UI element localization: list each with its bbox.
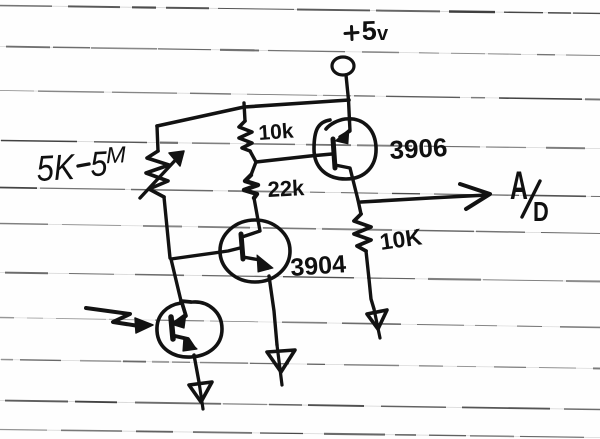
Q2 base bar <box>241 234 243 259</box>
wire: Q2 emitter to ground <box>269 276 277 345</box>
svg-text:3904: 3904 <box>289 250 347 282</box>
Q2 emitter with arrow <box>243 257 268 268</box>
wire: node to Q2 base <box>171 248 240 259</box>
supply terminal circle <box>332 57 354 75</box>
Q3 base bar <box>333 139 335 168</box>
resistor R4 10K zigzag <box>354 214 371 251</box>
svg-text:A: A <box>510 164 528 208</box>
svg-text:10k: 10k <box>258 120 295 145</box>
svg-text:5: 5 <box>361 15 377 46</box>
ground under Q1 (arrow triangle) <box>189 382 212 402</box>
label +5V <box>345 27 358 40</box>
resistor R1 5K-5M (variable) zigzag <box>146 151 169 197</box>
arrow across R1 (variable symbol) <box>140 153 182 198</box>
wire: node X to Q3 base <box>256 154 332 162</box>
wire: Q1 emitter to ground <box>194 355 199 382</box>
Q3 collector <box>335 165 358 200</box>
resistor R3 22k zigzag <box>244 175 258 198</box>
label A/D <box>510 164 528 208</box>
wire: left branch top stub <box>157 126 158 151</box>
wire: node X down to 22k <box>251 162 256 175</box>
wire: R2 bottom to node X <box>250 151 256 162</box>
svg-text:v: v <box>377 23 389 45</box>
Q1 emitter with arrow <box>175 336 194 348</box>
transistor Q3 3906 circle <box>314 119 376 179</box>
wire: Q3 collector to R4 <box>358 200 361 214</box>
wire: node down to Q1 collector <box>171 259 181 301</box>
ground under Q2 (arrow triangle) <box>267 350 295 372</box>
Q1 base bar <box>171 317 173 339</box>
resistor R2 10k zigzag <box>239 121 252 151</box>
transistor Q1 (photo) circle <box>157 302 222 357</box>
wire: 22k bottom to Q2 collector entry <box>242 198 260 237</box>
wire: top rail from left branch to +5V line <box>157 100 349 126</box>
svg-text:22k: 22k <box>267 175 306 202</box>
wire: R1 bottom to node junction <box>164 197 170 258</box>
svg-text:D: D <box>533 196 549 227</box>
Q3 emitter with arrow (PNP, into bar) <box>340 121 350 137</box>
svg-text:5K: 5K <box>35 146 77 189</box>
wire: +5V terminal down to Q3 emitter <box>346 75 350 121</box>
A/D arrowhead <box>460 184 490 209</box>
light input squiggle arrow <box>86 308 139 326</box>
wire: R4 bottom to ground <box>366 251 374 309</box>
ground under R4 (arrow triangle) <box>367 310 387 329</box>
wire: A/D output arrow shaft <box>361 195 487 202</box>
wire: 10k top stub from rail <box>244 103 245 121</box>
Q1 collector stroke with arrow into base bar <box>176 301 191 323</box>
svg-text:3906: 3906 <box>389 132 448 165</box>
transistor Q2 3904 circle <box>220 220 290 282</box>
svg-text:M: M <box>105 141 127 168</box>
label 5K-5M <box>35 141 128 189</box>
